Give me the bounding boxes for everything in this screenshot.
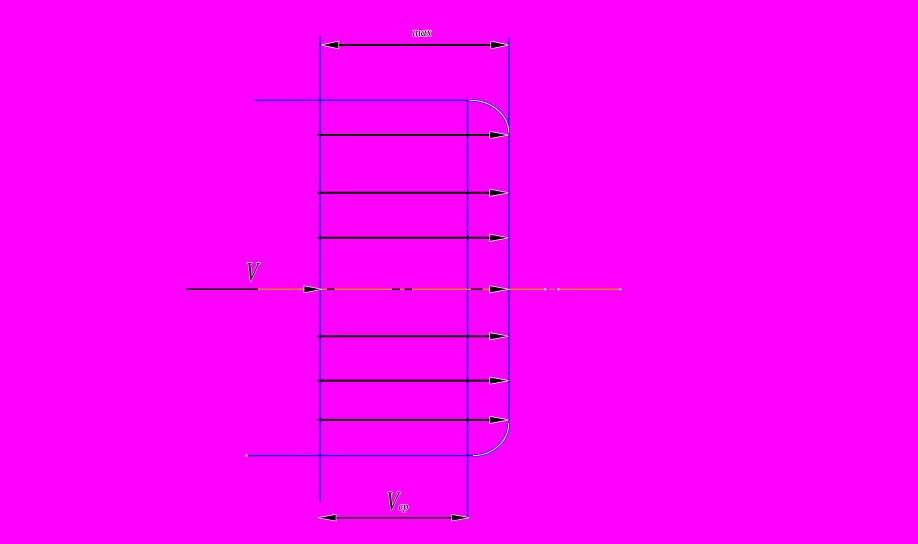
extension line middle (blue) [467, 100, 469, 518]
velocity arrow row 4 (center) [490, 286, 509, 293]
velocity arrow row 7 [318, 416, 509, 423]
extension line right (blue) [508, 38, 510, 423]
bottom wall line (blue) [246, 455, 474, 457]
extension line left (blue) [319, 36, 321, 502]
velocity arrow row 6 [318, 377, 509, 384]
dimension line top (max) [321, 41, 509, 49]
label Vcp (average velocity) [385, 487, 408, 517]
velocity arrow row 1 [318, 131, 509, 138]
centerline black dashes [327, 288, 483, 290]
top profile arc (blue with white inner highlight) [471, 100, 509, 133]
svg-text:ср: ср [399, 502, 409, 513]
centerline (orange dash-dot axis) [258, 288, 621, 290]
dimension line bottom (Vcp) [318, 514, 470, 521]
center velocity vector V (black shaft over axis) [186, 286, 322, 293]
top wall line (blue) [255, 99, 468, 101]
bottom profile arc (blue with white inner highlight) [473, 423, 509, 456]
velocity arrow row 5 [318, 333, 509, 340]
velocity arrow row 3 [318, 234, 509, 241]
velocity arrow row 2 [318, 189, 509, 196]
svg-text:max: max [413, 27, 433, 39]
